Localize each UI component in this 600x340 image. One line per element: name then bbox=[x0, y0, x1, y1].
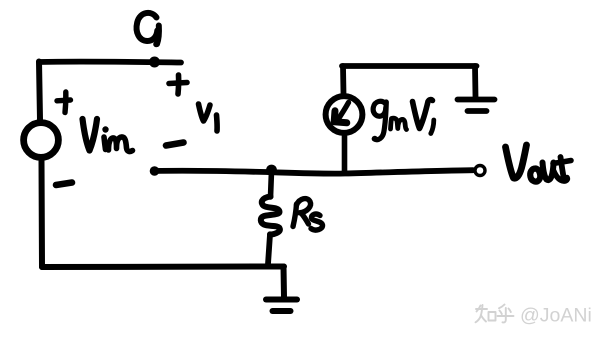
wire: resistor top lead bbox=[271, 171, 272, 197]
node: resistor junction dot bbox=[266, 165, 277, 176]
label G bbox=[137, 13, 160, 47]
wire: gate top horizontal from Vin top corner to open end bbox=[39, 59, 181, 66]
label + (Vin polarity) bbox=[57, 92, 71, 113]
wire: current source bottom lead bbox=[342, 133, 348, 173]
label + (v1 plus) bbox=[169, 75, 187, 94]
label - (Vin minus) bbox=[56, 183, 72, 186]
label - (v1 minus) bbox=[166, 143, 184, 146]
label gmV1 bbox=[372, 100, 434, 142]
wire: top rail of current-source loop bbox=[342, 63, 477, 69]
wire: source node horizontal rail bbox=[154, 170, 473, 173]
label v1 bbox=[199, 104, 218, 131]
label Vin bbox=[83, 119, 133, 152]
wire: resistor bottom lead to bottom rail bbox=[268, 235, 270, 265]
voltage source Vin circle bbox=[24, 123, 59, 158]
current source gmV1 circle bbox=[326, 96, 363, 133]
label Vout bbox=[506, 145, 572, 182]
ground (top right) bbox=[458, 100, 495, 112]
svg-text:@JoANi: @JoANi bbox=[520, 305, 592, 327]
ground (bottom) bbox=[266, 300, 297, 312]
wire: left vertical from top corner down to Vin circle top bbox=[39, 62, 40, 120]
resistor RS squiggle bbox=[261, 197, 280, 235]
wire: current source top lead bbox=[340, 66, 346, 94]
output terminal open circle bbox=[475, 166, 485, 176]
node G junction dot bbox=[149, 57, 160, 68]
wire: bottom rail from left vertical to ground branch bbox=[42, 264, 284, 271]
wire: branch down from bottom rail to bottom ground bbox=[281, 267, 288, 298]
label RS bbox=[293, 199, 323, 230]
node: source rail left end dot bbox=[150, 166, 160, 176]
wire: right vertical down to top ground bbox=[472, 66, 478, 97]
watermark 知乎 @JoANi bbox=[476, 305, 514, 323]
wire: left vertical from Vin circle bottom down to bottom rail bbox=[39, 161, 46, 268]
current source arrow bbox=[334, 103, 348, 123]
